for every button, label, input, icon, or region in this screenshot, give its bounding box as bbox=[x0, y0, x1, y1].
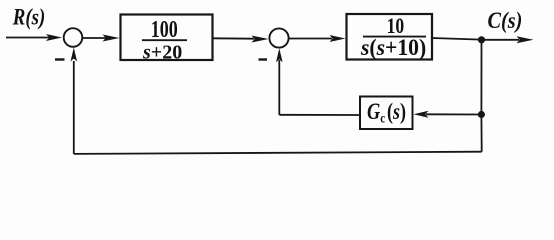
wire vertical up into S2 bbox=[278, 60, 280, 115]
fraction bar G2 bbox=[363, 36, 426, 38]
minus sign at S1 bbox=[55, 58, 65, 60]
wire output arrow to C(s) bbox=[482, 39, 520, 41]
svg-text:s+20: s+20 bbox=[142, 41, 182, 63]
wire bottom feedback line bbox=[74, 152, 482, 154]
wire S2 to block G2 bbox=[289, 38, 332, 40]
wire G2 to output node bbox=[432, 38, 482, 40]
wire vertical from feedback node down to bottom bbox=[480, 115, 482, 152]
node R(s) input label bbox=[12, 4, 45, 30]
value label 10 (G2 numerator) bbox=[387, 14, 405, 38]
minus sign at S2 bbox=[259, 58, 268, 60]
svg-text:C(s): C(s) bbox=[488, 8, 523, 33]
wire left vertical up into S1 bbox=[73, 61, 75, 154]
svg-text:s(s+10): s(s+10) bbox=[360, 35, 426, 61]
node output junction dot bbox=[478, 36, 485, 43]
node feedback junction dot bbox=[478, 111, 485, 118]
value label Gc(s) bbox=[367, 98, 406, 126]
wire G1 to summing junction S2 bbox=[213, 37, 254, 39]
value label s+20 (G1 denominator) bbox=[142, 41, 182, 63]
svg-text:100: 100 bbox=[151, 15, 178, 42]
value label s(s+10) (G2 denominator) bbox=[360, 35, 426, 61]
wire input arrow into summing junction S1 bbox=[6, 37, 49, 39]
value label 100 (G1 numerator) bbox=[151, 15, 178, 42]
wire vertical from output node down bbox=[480, 40, 482, 115]
fraction bar G1 bbox=[142, 39, 187, 41]
block Gc box bbox=[360, 97, 413, 130]
svg-text:Gc(s): Gc(s) bbox=[367, 98, 406, 126]
wire S1 to block G1 bbox=[82, 37, 106, 39]
summing junction S2 bbox=[269, 28, 288, 47]
svg-text:R(s): R(s) bbox=[12, 4, 45, 30]
summing junction S1 bbox=[64, 28, 83, 47]
block G1 box bbox=[121, 15, 213, 61]
wire Gc block to left corner bbox=[279, 114, 360, 116]
wire feedback arrow into Gc block bbox=[426, 113, 481, 115]
block G2 box bbox=[347, 14, 433, 60]
node C(s) output label bbox=[488, 8, 523, 33]
